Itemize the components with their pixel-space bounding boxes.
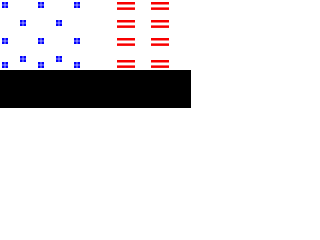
red dimer col 1 row 3 [117, 38, 135, 46]
black bottom band [0, 70, 191, 108]
red dimer col 1 row 2 [117, 20, 135, 28]
blue site row 3 col E [74, 38, 80, 44]
red dimer col 2 row 2 [151, 20, 169, 28]
blue site row 1 col E [74, 2, 80, 8]
red dimer col 2 row 3 [151, 38, 169, 46]
blue site row 1 col A [2, 2, 8, 8]
red dimer col 2 row 1 [151, 2, 169, 10]
white plot background [0, 0, 191, 70]
blue site row 4 col B [20, 56, 26, 62]
red dimer col 2 row 4 [151, 60, 169, 68]
blue site row 4 col D [56, 56, 62, 62]
blue site row 3 col A [2, 38, 8, 44]
blue site row 5 col E [74, 62, 80, 68]
blue site row 3 col C [38, 38, 44, 44]
red dimer col 1 row 1 [117, 2, 135, 10]
blue site row 1 col C [38, 2, 44, 8]
blue site row 2 col B [20, 20, 26, 26]
blue site row 2 col D [56, 20, 62, 26]
blue site row 5 col A [2, 62, 8, 68]
blue site row 5 col C [38, 62, 44, 68]
red dimer col 1 row 4 [117, 60, 135, 68]
